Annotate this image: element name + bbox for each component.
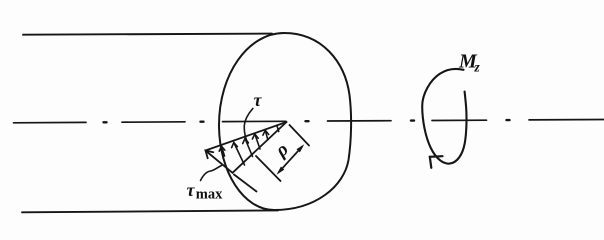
svg-text:τ: τ	[187, 180, 196, 200]
svg-text:z: z	[474, 60, 481, 75]
svg-text:τ: τ	[254, 90, 263, 110]
svg-text:ρ: ρ	[271, 139, 293, 162]
svg-text:max: max	[196, 187, 223, 203]
